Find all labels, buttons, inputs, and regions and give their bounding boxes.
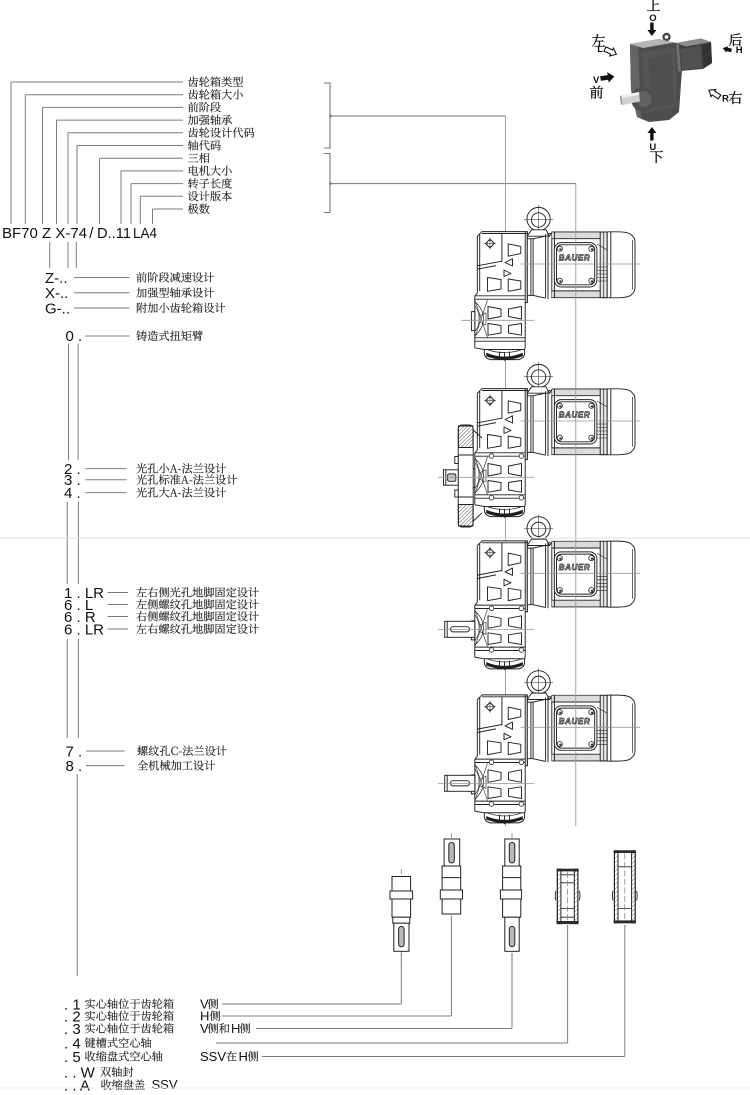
svg-text:G-..: G-..: [45, 300, 70, 317]
unit 2 A-flange: [455, 425, 482, 527]
label: 加强型轴承设计: [136, 287, 214, 297]
label: 实心轴位于齿轮箱: [85, 1023, 174, 1033]
svg-text:V: V: [593, 75, 600, 86]
label: 螺纹孔C-法兰设计: [137, 746, 226, 756]
leader to shaft 3: [256, 953, 512, 1029]
label: 三相: [188, 153, 209, 163]
label: 光孔标准A-法兰设计: [136, 474, 237, 484]
gearbox vertical centerline: [505, 116, 507, 826]
gear unit 4: [471, 668, 635, 824]
leader to shaft 5: [262, 925, 625, 1057]
label: 齿轮箱大小: [188, 89, 243, 99]
label: 附加小齿轮箱设计: [137, 303, 225, 313]
unit 4 output shaft: [445, 775, 475, 791]
hollow shaft keyed: [555, 869, 580, 923]
gear unit 1: [471, 205, 635, 361]
label: 收缩盘盖SSV: [101, 1080, 145, 1090]
label: 收缩盘式空心轴: [85, 1051, 162, 1061]
svg-text:BAUER: BAUER: [559, 411, 590, 420]
label: 铸造式扭矩臂: [136, 331, 202, 341]
label: 键槽式空心轴: [85, 1037, 151, 1047]
leader line 3: [43, 107, 184, 224]
arrow H: [722, 45, 732, 54]
label: 实心轴位于齿轮箱: [85, 999, 174, 1009]
leader line 10: [140, 196, 183, 224]
leader to shaft 2: [222, 916, 451, 1016]
label left L: [592, 34, 605, 46]
label up O: [647, 0, 660, 11]
svg-text:D..11: D..11: [97, 225, 131, 242]
svg-text:H: H: [231, 1021, 240, 1036]
gear unit 2: [471, 362, 635, 518]
svg-text:SSV: SSV: [152, 1077, 178, 1092]
unit 2 motor horizontal centerline: [521, 420, 641, 422]
leader line 2: [25, 95, 183, 224]
svg-text:H: H: [239, 1049, 248, 1064]
leader line 9: [131, 184, 183, 224]
unit 3 face screws: [489, 606, 524, 652]
svg-text:. . A: . . A: [64, 1077, 90, 1094]
svg-text:6 . LR: 6 . LR: [64, 621, 104, 638]
svg-text:8 .: 8 .: [66, 758, 83, 775]
svg-text:BF70 Z X-74: BF70 Z X-74: [2, 225, 87, 242]
label: 实心轴位于齿轮箱: [85, 1011, 174, 1021]
risers 4 to 1.LR: [67, 502, 78, 585]
unit 4 face screws: [489, 760, 524, 806]
label: 全机械加工设计: [137, 760, 215, 770]
svg-text:O: O: [649, 13, 656, 24]
unit 4 output horizontal centerline: [438, 783, 534, 785]
label: 左右螺纹孔地脚固定设计: [136, 624, 258, 634]
solid shaft H side: [440, 833, 462, 916]
label: 轴代码: [188, 140, 221, 150]
risers 0 to 2: [69, 344, 79, 461]
svg-text:BAUER: BAUER: [559, 254, 590, 263]
bracket group motor labels: [324, 154, 330, 213]
motor vertical centerline: [575, 184, 577, 826]
svg-text:BAUER: BAUER: [559, 717, 590, 726]
label: 极数: [188, 204, 210, 214]
svg-text:/: /: [89, 225, 94, 242]
arrow down (O): [647, 23, 656, 37]
label: 齿轮箱类型: [188, 77, 243, 87]
bracket group gearbox labels: [324, 83, 330, 148]
solid shaft V side: [390, 869, 413, 968]
leader line 5: [68, 133, 183, 224]
unit 2 face screws: [489, 454, 524, 500]
risers 6.LR to 7: [67, 639, 78, 738]
hollow shaft for shrink disc: [612, 851, 637, 923]
svg-text:4 .: 4 .: [64, 485, 81, 502]
connector bracket1 to gearbox centerline: [329, 115, 505, 118]
seam line bottom: [0, 1087, 750, 1089]
unit 1 motor horizontal centerline: [521, 263, 641, 265]
label: 光孔大A-法兰设计: [136, 487, 226, 497]
leader line 11: [153, 209, 184, 224]
risers below type code: [50, 242, 77, 268]
orientation photo gearmotor: [620, 33, 712, 122]
leader to shaft 4: [216, 925, 568, 1043]
unit 4 motor horizontal centerline: [521, 726, 641, 728]
unit 1 output horizontal centerline: [461, 319, 534, 321]
label: 电机大小: [189, 165, 232, 175]
arrow V: [600, 71, 615, 83]
label: 左侧螺纹孔地脚固定设计: [136, 599, 258, 609]
leader line 1: [11, 82, 183, 224]
leader line 7: [100, 158, 184, 224]
gear unit 3: [471, 514, 635, 670]
svg-text:H: H: [736, 45, 743, 56]
svg-text:SSV: SSV: [200, 1049, 226, 1064]
arrow up (U): [647, 127, 656, 141]
leader line 6: [77, 146, 183, 225]
svg-text:LA4: LA4: [133, 225, 157, 242]
solid shaft V and H sides: [500, 833, 521, 968]
label: 前阶段减速设计: [136, 272, 214, 282]
connector bracket2 to motor centerline: [329, 182, 576, 185]
svg-text:. 5: . 5: [64, 1049, 81, 1066]
label: 前阶段: [188, 102, 221, 112]
leader line 4: [57, 120, 184, 224]
riser 8 down: [76, 774, 78, 976]
label: 双轴封: [100, 1067, 133, 1077]
label: 设计版本: [188, 191, 232, 201]
svg-text:L: L: [597, 44, 603, 55]
label: 齿轮设计代码: [188, 127, 254, 137]
label: 加强轴承: [188, 115, 232, 125]
svg-text:BAUER: BAUER: [559, 563, 590, 572]
unit 3 output shaft: [445, 621, 475, 637]
leader to shaft 1: [222, 953, 401, 1004]
outline arrow L: [603, 45, 618, 58]
label: 转子长度: [188, 178, 232, 188]
svg-text:R: R: [722, 94, 729, 105]
svg-text:0 .: 0 .: [66, 328, 83, 345]
seam line mid: [0, 537, 750, 539]
label: 左右侧光孔地脚固定设计: [136, 587, 258, 597]
label rear H: [729, 33, 742, 46]
leader line 8: [121, 171, 183, 224]
label: 光孔小A-法兰设计: [136, 463, 226, 473]
svg-text:V: V: [200, 1021, 209, 1036]
unit 2 output shaft: [444, 470, 459, 485]
outline arrow R: [707, 87, 722, 101]
unit 3 output horizontal centerline: [438, 629, 534, 631]
unit 3 motor horizontal centerline: [521, 572, 641, 574]
unit 2 output horizontal centerline: [438, 476, 534, 478]
label: 右侧螺纹孔地脚固定设计: [136, 611, 258, 621]
